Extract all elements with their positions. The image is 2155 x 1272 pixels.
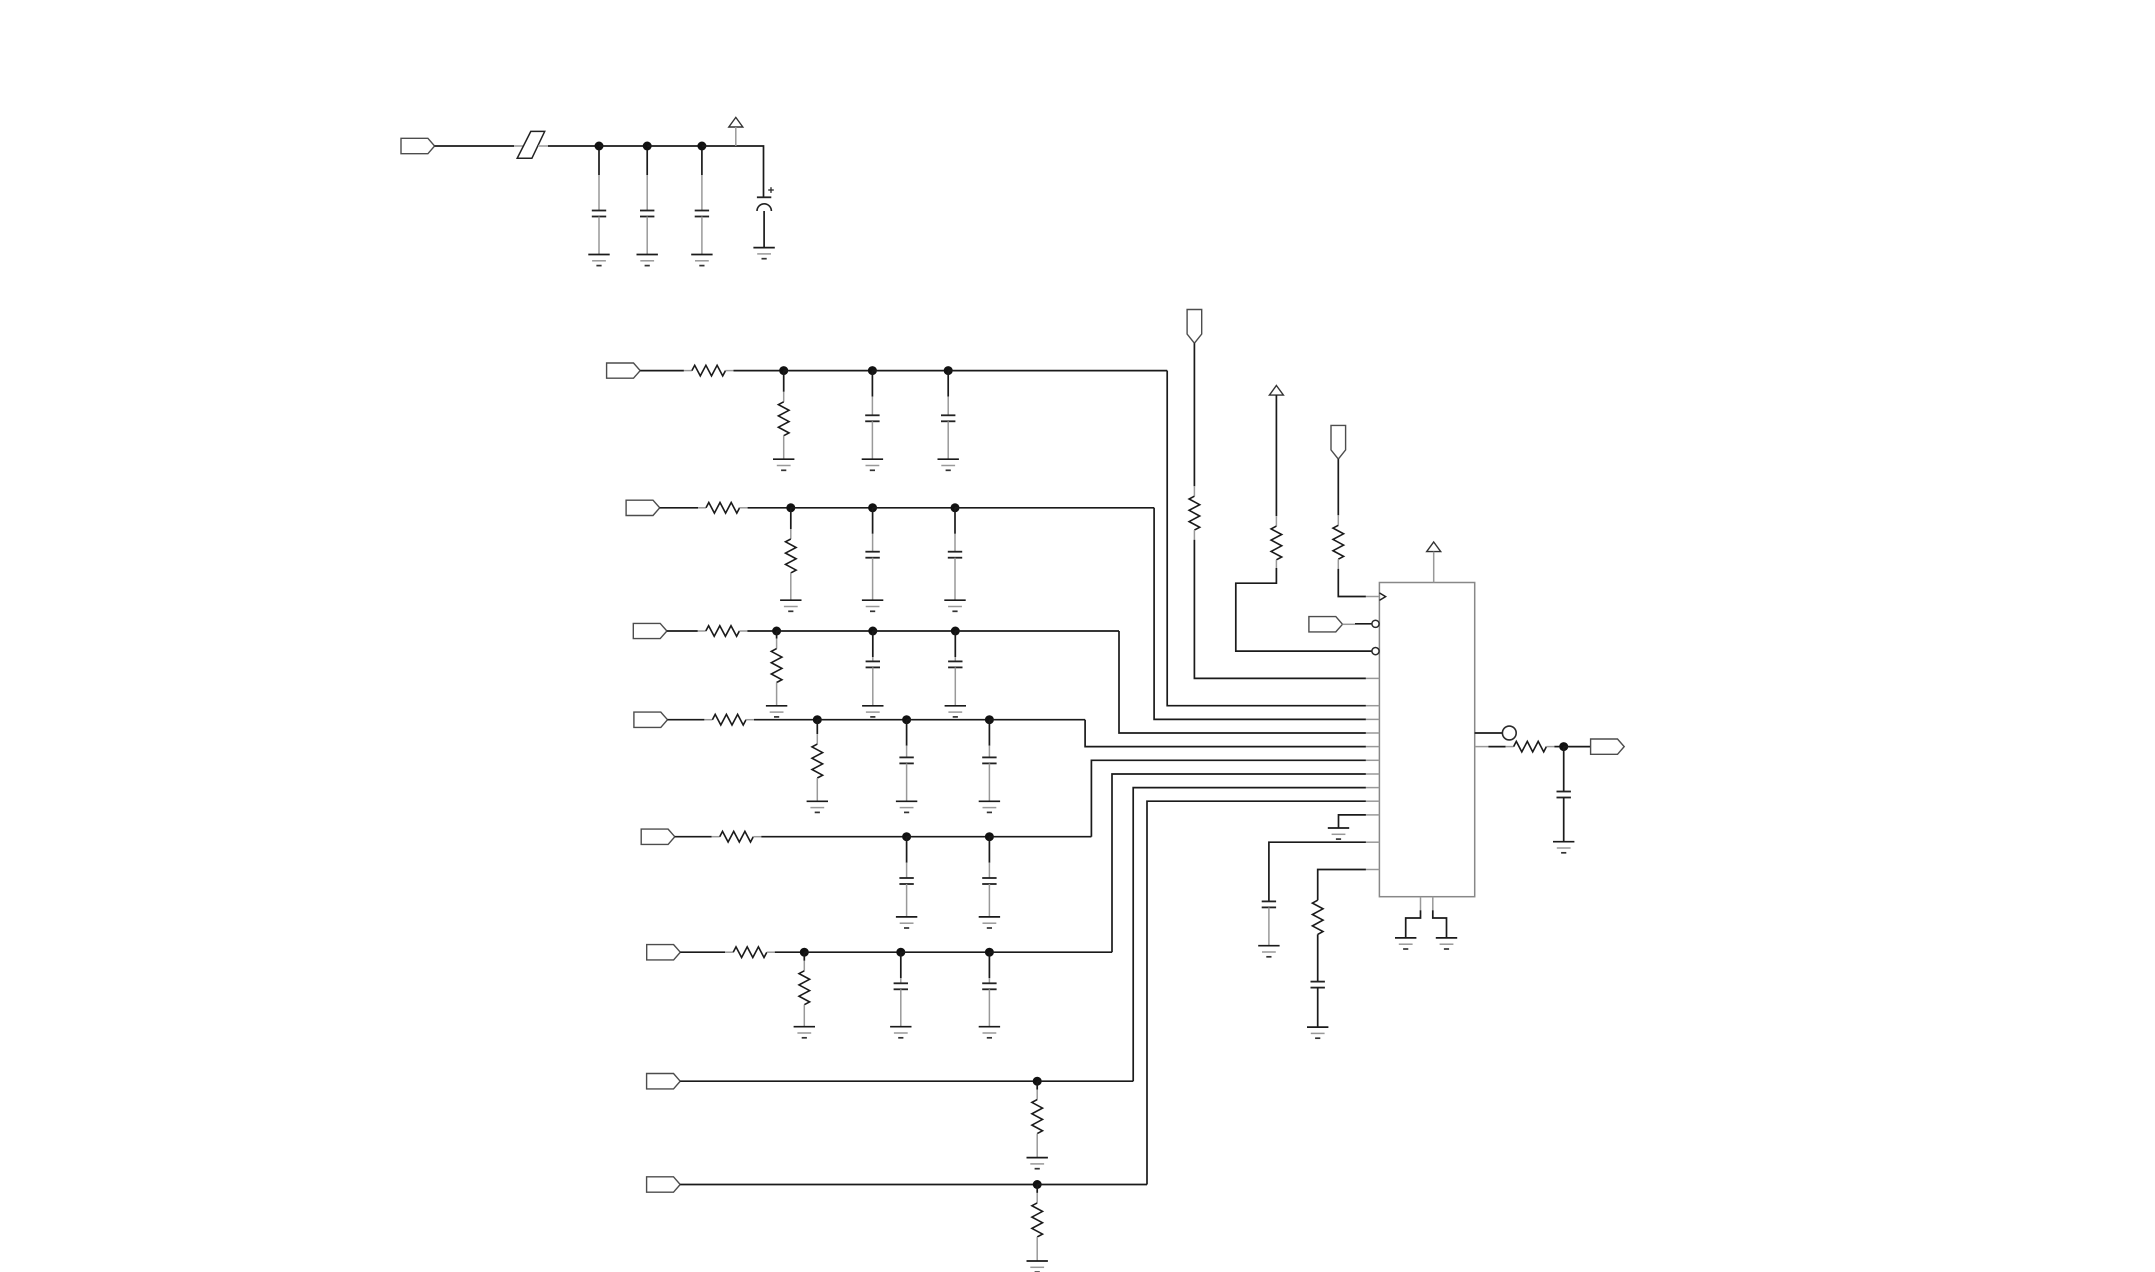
node VIN power entry tag bbox=[401, 138, 435, 153]
resistor pulldown row 8 bbox=[1032, 1185, 1043, 1262]
power symbol VCC above IC bbox=[1427, 542, 1441, 583]
wire row 1 tag to series resistor bbox=[640, 370, 692, 372]
IC U1 body bbox=[1379, 583, 1474, 897]
capacitor C2 decoupling bbox=[640, 150, 654, 255]
node input tag row 2 bbox=[626, 500, 660, 515]
node input tag row 1 bbox=[607, 363, 641, 378]
wire power rail segment 3 with corner down to C4 bbox=[702, 146, 764, 197]
ground below pulldown resistor row 8 bbox=[1027, 1261, 1048, 1272]
ground below filter cap row 1.1 bbox=[862, 459, 883, 470]
capacitor filter row 4.2 bbox=[982, 720, 996, 802]
pin stub IC left 4 bbox=[1366, 718, 1380, 720]
pin stub IC left 5 bbox=[1366, 732, 1380, 734]
node junction dot row 8.1 bbox=[1033, 1180, 1042, 1189]
node junction dot row 2.3 bbox=[951, 503, 960, 512]
node junction dot row 1.3 bbox=[944, 366, 953, 375]
capacitor filter row 6.2 bbox=[982, 952, 996, 1026]
ground below C13 bbox=[1553, 842, 1574, 853]
capacitor filter row 1.1 bbox=[865, 371, 879, 460]
resistor R5 series (row 5) bbox=[720, 831, 754, 842]
pin stub IC left 3 bbox=[1366, 705, 1380, 707]
pin stub IC left 12 bbox=[1366, 841, 1380, 843]
wire row 5 resistor to first junction bbox=[753, 836, 906, 838]
ground below filter cap row 5.2 bbox=[979, 917, 1000, 928]
resistor pulldown row 2 bbox=[786, 508, 797, 600]
node junction dot row 6.2 bbox=[896, 948, 905, 957]
wire T5 tag to IC bubble pin 1 bbox=[1343, 623, 1372, 626]
ground below filter cap row 2.1 bbox=[862, 600, 883, 611]
node junction dot row 2.1 bbox=[786, 503, 795, 512]
node input tag row 4 bbox=[634, 712, 668, 727]
wire IC pin to RC network bbox=[1318, 870, 1366, 901]
wire row 3 bus segment 3 bbox=[955, 630, 1119, 632]
wire row 1 riser to IC pin bbox=[1167, 371, 1366, 706]
pin stub IC left 7 bbox=[1366, 759, 1380, 761]
capacitor filter row 3.1 bbox=[866, 631, 880, 706]
capacitor filter row 5.2 bbox=[982, 837, 996, 917]
node input tag row 3 bbox=[633, 623, 667, 638]
wire row 3 bus segment 2 bbox=[873, 630, 956, 632]
capacitor filter row 2.2 bbox=[948, 508, 962, 600]
ground below pulldown resistor row 7 bbox=[1027, 1158, 1048, 1169]
resistor R13 output series bbox=[1514, 741, 1547, 752]
node junction dot row 2.2 bbox=[868, 503, 877, 512]
wire IC bottom-left pin to ground bbox=[1406, 910, 1421, 938]
wire row 4 resistor to first junction bbox=[746, 719, 817, 721]
pin stub IC left 9 bbox=[1366, 787, 1380, 789]
wire row 3 tag to series resistor bbox=[667, 630, 706, 632]
ground below filter cap row 3.2 bbox=[945, 706, 966, 717]
pin stub IC left 11 bbox=[1366, 814, 1380, 816]
capacitor filter row 3.2 bbox=[948, 631, 962, 706]
capacitor C13 output filter bbox=[1557, 747, 1571, 842]
node output junction dot bbox=[1559, 742, 1568, 751]
wire row 8 tag to junction bbox=[680, 1184, 1037, 1186]
capacitor C11 timing bbox=[1262, 901, 1276, 945]
wire power rail segment 1 bbox=[599, 145, 647, 147]
node junction dot 3 on power rail bbox=[697, 142, 706, 151]
pin bubble inverted output on IC right bbox=[1475, 726, 1517, 740]
resistor R4 series (row 4) bbox=[712, 714, 746, 725]
resistor R11 on clock net bbox=[1333, 459, 1344, 569]
wire row 2 resistor to first junction bbox=[740, 507, 791, 509]
wire row 3 riser to IC pin bbox=[1119, 631, 1366, 733]
wire row 1 bus segment 3 bbox=[948, 370, 1167, 372]
wire output junction to output tag bbox=[1564, 746, 1591, 748]
wire row 2 bus segment 2 bbox=[873, 507, 955, 509]
wire row 5 bus segment 2 bbox=[989, 836, 1091, 838]
wire row 6 bus segment 3 bbox=[989, 951, 1112, 953]
node input tag row 8 bbox=[647, 1177, 681, 1192]
ground below C1 bbox=[588, 255, 609, 266]
ground below filter cap row 6.2 bbox=[979, 1027, 1000, 1038]
wire row 4 riser to IC pin bbox=[1085, 720, 1366, 747]
node junction dot row 7.1 bbox=[1033, 1077, 1042, 1086]
wire row 8 riser to IC pin bbox=[1147, 801, 1366, 1184]
pin stub IC left 10 bbox=[1366, 800, 1380, 802]
node enable tag T5 (points right) bbox=[1309, 617, 1343, 632]
node junction dot 2 on power rail bbox=[643, 142, 652, 151]
node input tag row 7 bbox=[647, 1074, 681, 1089]
wire T1 net down and right to IC pin bbox=[1194, 540, 1366, 679]
wire row 4 tag to series resistor bbox=[668, 719, 713, 721]
ground below C12 bbox=[1307, 1027, 1328, 1038]
wire power rail segment 2 bbox=[647, 145, 702, 147]
node junction dot row 1.1 bbox=[779, 366, 788, 375]
node junction dot row 4.2 bbox=[902, 715, 911, 724]
wire row 2 riser to IC pin bbox=[1154, 508, 1366, 720]
wire row 7 tag to junction bbox=[680, 1080, 1037, 1082]
resistor pulldown row 4 bbox=[812, 720, 823, 802]
pin bubble active-low 1 on IC left bbox=[1372, 620, 1379, 627]
node junction dot row 6.1 bbox=[800, 948, 809, 957]
ground below filter cap row 4.1 bbox=[896, 801, 917, 812]
wire row 5 bus segment 1 bbox=[907, 836, 990, 838]
wire IC bottom-right pin to ground bbox=[1433, 910, 1447, 938]
node reference tag T2 (vertical, points down) bbox=[1331, 425, 1346, 459]
node input tag row 5 bbox=[641, 829, 675, 844]
capacitor filter row 1.2 bbox=[941, 371, 955, 460]
resistor R12 RC network bbox=[1312, 900, 1323, 981]
pin stub IC left 1 bbox=[1366, 596, 1380, 598]
power symbol VCC arrow at top rail bbox=[729, 117, 743, 146]
wire IC ground pin to local ground bbox=[1339, 815, 1366, 828]
wire row 1 bus segment 2 bbox=[872, 370, 948, 372]
node junction dot row 3.2 bbox=[868, 627, 877, 636]
ground below pulldown resistor row 3 bbox=[766, 706, 787, 717]
node junction dot row 5.1 bbox=[902, 832, 911, 841]
resistor R3 series (row 3) bbox=[706, 626, 740, 637]
node junction dot 1 on power rail bbox=[595, 142, 604, 151]
wire row 6 bus segment 1 bbox=[804, 951, 901, 953]
node junction dot row 1.2 bbox=[868, 366, 877, 375]
wire clock net down and right to IC clock pin bbox=[1338, 569, 1366, 597]
capacitor filter row 2.1 bbox=[865, 508, 879, 600]
ground below pulldown resistor row 6 bbox=[794, 1027, 815, 1038]
ground below IC right bbox=[1436, 938, 1457, 949]
capacitor C12 RC network bbox=[1311, 982, 1325, 1028]
ground below filter cap row 4.2 bbox=[979, 801, 1000, 812]
capacitor filter row 5.1 bbox=[899, 837, 913, 917]
pin stub IC left 13 bbox=[1366, 869, 1380, 871]
capacitor filter row 6.1 bbox=[894, 952, 908, 1026]
node junction dot row 3.3 bbox=[951, 627, 960, 636]
wire row 4 bus segment 3 bbox=[989, 719, 1085, 721]
resistor R6 series (row 6) bbox=[733, 947, 767, 958]
pin stub IC left 6 bbox=[1366, 746, 1380, 748]
wire row 3 bus segment 1 bbox=[777, 630, 873, 632]
ground below pulldown resistor row 1 bbox=[773, 459, 794, 470]
wire row 1 bus segment 1 bbox=[784, 370, 873, 372]
resistor pulldown row 6 bbox=[799, 952, 810, 1026]
node junction dot row 4.3 bbox=[985, 715, 994, 724]
ground below filter cap row 2.2 bbox=[944, 600, 965, 611]
wire row 6 resistor to first junction bbox=[767, 951, 805, 953]
wire row 2 bus segment 1 bbox=[791, 507, 873, 509]
pin bubble active-low 2 on IC left bbox=[1372, 648, 1379, 655]
wire IC output to series resistor bbox=[1488, 746, 1513, 748]
ground below C11 bbox=[1258, 946, 1279, 957]
ground below filter cap row 1.2 bbox=[938, 459, 959, 470]
wire row 5 tag to series resistor bbox=[675, 836, 720, 838]
wire row 7 riser to IC pin bbox=[1133, 788, 1366, 1082]
wire row 6 riser to IC pin bbox=[1112, 774, 1366, 952]
capacitor C1 decoupling bbox=[592, 150, 606, 255]
ground below pulldown resistor row 4 bbox=[807, 801, 828, 812]
wire row 2 bus segment 3 bbox=[955, 507, 1154, 509]
wire row 4 bus segment 2 bbox=[907, 719, 990, 721]
wire bead to power rail bbox=[548, 145, 599, 147]
node junction dot row 4.1 bbox=[813, 715, 822, 724]
power symbol VCC arrow mid bbox=[1269, 386, 1283, 396]
wire VIN tag to ferrite bead bbox=[435, 145, 514, 147]
pin stub IC left 2 bbox=[1366, 677, 1380, 679]
resistor R10 on VCC pullup net bbox=[1271, 395, 1282, 568]
pin stub IC right output bbox=[1475, 746, 1489, 748]
ground below C2 bbox=[637, 255, 658, 266]
node junction dot row 3.1 bbox=[772, 627, 781, 636]
resistor pulldown row 3 bbox=[771, 631, 782, 706]
ferrite bead FB1 bbox=[514, 131, 548, 158]
pin stub IC left 8 bbox=[1366, 773, 1380, 775]
resistor R2 series (row 2) bbox=[706, 503, 740, 514]
wire row 4 bus segment 1 bbox=[817, 719, 906, 721]
wire row 6 bus segment 2 bbox=[901, 951, 990, 953]
node input tag row 6 bbox=[647, 945, 681, 960]
capacitor C3 decoupling bbox=[695, 150, 709, 255]
wire IC pin to timing capacitor bbox=[1269, 842, 1366, 901]
pin stub IC bottom left bbox=[1420, 897, 1422, 911]
ground below C4 bbox=[753, 248, 774, 259]
wire row 2 tag to series resistor bbox=[660, 507, 706, 509]
wire output resistor to junction bbox=[1546, 746, 1563, 748]
node junction dot row 5.2 bbox=[985, 832, 994, 841]
resistor pulldown row 1 bbox=[778, 371, 789, 460]
wire row 8 bus segment 1 bbox=[1037, 1184, 1147, 1186]
resistor R1 series (row 1) bbox=[692, 365, 726, 376]
capacitor C4 electrolytic polarized bbox=[757, 187, 774, 247]
pin clock input arrow marker bbox=[1379, 593, 1385, 601]
wire row 6 tag to series resistor bbox=[680, 951, 733, 953]
ground at IC left pin bbox=[1328, 828, 1349, 839]
wire row 7 bus segment 1 bbox=[1037, 1080, 1133, 1082]
capacitor filter row 4.1 bbox=[899, 720, 913, 802]
wire row 1 resistor to first junction bbox=[726, 370, 784, 372]
wire row 3 resistor to first junction bbox=[739, 630, 776, 632]
ground below filter cap row 6.1 bbox=[890, 1027, 911, 1038]
ground below IC left bbox=[1395, 938, 1416, 949]
ground below filter cap row 5.1 bbox=[896, 917, 917, 928]
wire row 5 riser to IC pin bbox=[1091, 760, 1366, 836]
resistor pulldown row 7 bbox=[1032, 1081, 1043, 1157]
resistor R9 on T1 net bbox=[1189, 343, 1200, 540]
ground below pulldown resistor row 2 bbox=[780, 600, 801, 611]
ground below C3 bbox=[691, 255, 712, 266]
node junction dot row 6.3 bbox=[985, 948, 994, 957]
pin stub IC bottom right bbox=[1432, 897, 1434, 911]
node output tag (points right) bbox=[1591, 739, 1625, 754]
wire VCC pullup net jog to IC bubble pin 2 bbox=[1236, 568, 1372, 651]
ground below filter cap row 3.1 bbox=[862, 706, 883, 717]
node reference tag T1 (vertical, points down) bbox=[1187, 310, 1202, 344]
